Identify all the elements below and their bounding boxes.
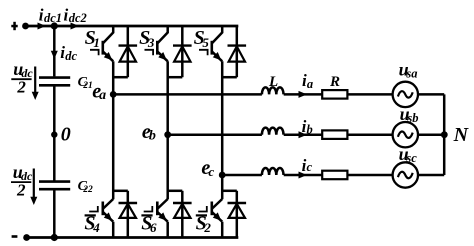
wire lower join bar leg 2 — [168, 190, 183, 193]
svg-text:dc: dc — [65, 49, 77, 63]
svg-text:6: 6 — [150, 220, 157, 235]
resistor R phase c — [322, 171, 347, 180]
wire lower leg 2 to bottom rail — [166, 222, 169, 238]
plus terminal — [11, 22, 17, 30]
wire lower join bar leg 1 — [113, 190, 128, 193]
svg-text:3: 3 — [147, 35, 155, 50]
svg-text:L: L — [268, 74, 278, 90]
svg-text:2: 2 — [16, 77, 26, 96]
svg-text:c: c — [307, 160, 313, 174]
svg-text:dc2: dc2 — [69, 11, 87, 25]
wire lower leg 1 to bottom rail — [112, 222, 115, 238]
wire upper leg 2 to phase node — [166, 61, 169, 134]
svg-text:sb: sb — [406, 111, 418, 125]
wire source to neutral phase b — [418, 133, 444, 136]
svg-text:22: 22 — [82, 185, 93, 195]
svg-text:4: 4 — [92, 220, 100, 235]
wire phase node to lower cell leg 2 — [166, 135, 169, 200]
wire inductor to resistor phase b — [284, 133, 323, 136]
diode upper leg 3 — [222, 26, 246, 77]
wire phase c to inductor — [222, 174, 262, 177]
capacitor C21 — [39, 75, 93, 91]
wire phase node to lower cell leg 3 — [221, 175, 224, 199]
node N — [441, 124, 470, 146]
capacitor C22 — [39, 179, 93, 195]
wire phase b to inductor — [168, 133, 262, 136]
current arrow i_a — [299, 71, 314, 98]
wire inductor to resistor phase a — [284, 93, 323, 96]
ac source u_sc — [393, 162, 418, 187]
node e_a — [92, 80, 116, 103]
transistor S1 (upper IGBT leg 1) — [85, 26, 114, 61]
current arrow i_b — [299, 117, 313, 138]
transistor S3 (upper IGBT leg 2) — [139, 26, 168, 61]
svg-text:b: b — [307, 123, 313, 137]
wire source to neutral phase a — [418, 93, 444, 96]
diode lower leg 3 — [228, 191, 247, 238]
label u_sa — [399, 60, 418, 81]
current arrow i_dc2 — [64, 5, 87, 29]
wire dc bus middle — [53, 85, 56, 181]
wire source to neutral phase c — [418, 174, 444, 177]
wire resistor to source phase a — [347, 93, 392, 96]
wire neutral vertical — [443, 94, 446, 175]
inductor L phase a — [262, 87, 284, 94]
wire lower leg 3 to bottom rail — [221, 222, 224, 238]
svg-text:c: c — [208, 164, 214, 179]
wire bottom rail — [27, 236, 239, 239]
svg-text:2: 2 — [16, 180, 26, 199]
inductor L phase b — [262, 128, 284, 135]
wire phase node to lower cell leg 1 — [112, 94, 115, 199]
wire top rail — [26, 25, 239, 28]
svg-text:0: 0 — [61, 124, 71, 146]
svg-text:2: 2 — [203, 220, 211, 235]
wire resistor to source phase c — [347, 174, 392, 177]
wire inductor to resistor phase c — [284, 174, 323, 177]
wire upper leg 1 to phase node — [112, 61, 115, 94]
svg-text:a: a — [99, 88, 106, 103]
voltage label u_dc/2 upper with arrow — [11, 59, 38, 100]
diode lower leg 1 — [119, 191, 138, 238]
node e_c — [201, 157, 225, 179]
label u_sc — [399, 144, 418, 165]
transistor S5 (upper IGBT leg 3) — [194, 26, 223, 61]
transistor S2-bar (lower IGBT leg 3) — [196, 199, 223, 235]
ac source u_sb — [393, 122, 418, 147]
voltage label u_dc/2 lower with arrow — [11, 162, 37, 205]
node minus-dot — [23, 234, 30, 241]
node bottom junction — [51, 234, 58, 241]
inductor L phase c — [262, 168, 284, 175]
diode upper leg 2 — [168, 26, 192, 77]
svg-text:sa: sa — [405, 67, 417, 81]
wire phase a to inductor — [113, 93, 262, 96]
wire upper leg 3 to phase node — [221, 61, 224, 175]
svg-text:5: 5 — [202, 35, 209, 50]
minus terminal — [12, 235, 18, 238]
diode lower leg 2 — [173, 191, 192, 238]
current arrow i_dc — [51, 43, 78, 63]
diode upper leg 1 — [113, 26, 137, 77]
current arrow i_dc1 — [38, 5, 63, 29]
transistor S6-bar (lower IGBT leg 2) — [141, 199, 168, 235]
svg-text:N: N — [453, 124, 470, 146]
svg-text:a: a — [307, 77, 313, 91]
transistor S4-bar (lower IGBT leg 1) — [84, 199, 113, 235]
wire resistor to source phase b — [347, 133, 392, 136]
current arrow i_c — [299, 156, 313, 179]
label u_sb — [400, 104, 419, 125]
node top junction — [51, 22, 58, 29]
svg-text:1: 1 — [93, 35, 100, 50]
node plus-dot — [22, 23, 29, 30]
node e_b — [142, 121, 171, 144]
resistor R phase a — [322, 90, 347, 99]
svg-text:sc: sc — [405, 151, 417, 165]
svg-text:b: b — [149, 129, 156, 144]
svg-text:R: R — [329, 74, 340, 90]
resistor R phase b — [322, 130, 347, 139]
node 0 — [51, 124, 71, 146]
wire lower join bar leg 3 — [222, 190, 237, 193]
ac source u_sa — [393, 82, 418, 107]
wire dc bus upper — [53, 26, 56, 76]
wire dc bus lower — [53, 189, 56, 237]
